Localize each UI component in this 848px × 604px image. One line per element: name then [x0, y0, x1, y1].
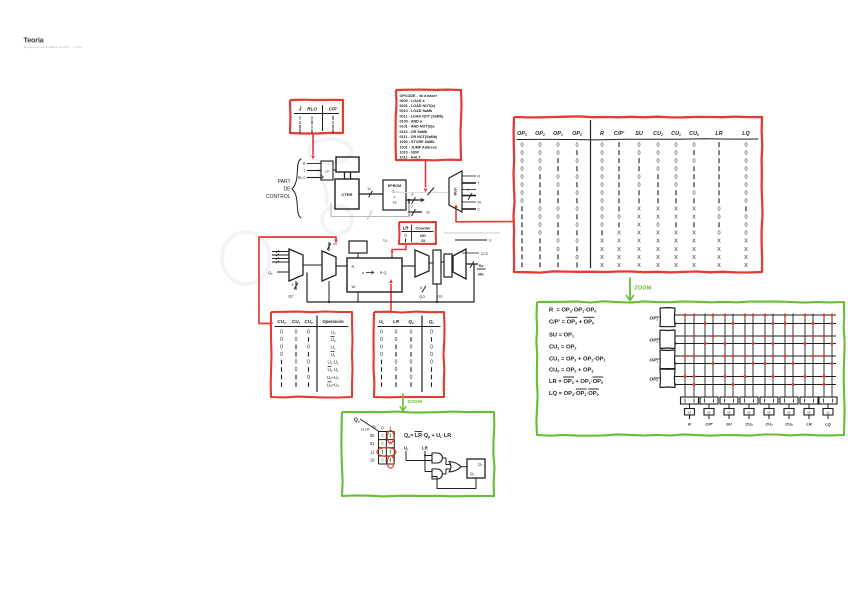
svg-text:Ck: Ck [426, 211, 430, 215]
svg-text:1000 - STORE SaMb: 1000 - STORE SaMb [400, 140, 436, 144]
svg-text:X: X [617, 231, 621, 237]
svg-text:RLO: RLO [298, 176, 306, 180]
svg-text:C/P': C/P' [614, 131, 625, 137]
svg-text:U0​·U1​: U0​·U1​ [327, 360, 339, 366]
svg-text:(U): (U) [438, 295, 443, 299]
svg-text:0: 0 [637, 143, 640, 149]
svg-text:X: X [674, 247, 678, 253]
svg-text:CU1​: CU1​ [765, 422, 773, 428]
svg-text:Counter: Counter [415, 226, 431, 231]
svg-text:0: 0 [410, 330, 413, 336]
svg-text:C/P': C/P' [329, 107, 339, 112]
svg-text:0: 0 [556, 247, 559, 253]
svg-text:0000 - LOAD a: 0000 - LOAD a [400, 99, 426, 103]
svg-text:LR: LR [422, 446, 429, 451]
svg-text:OP3​: OP3​ [649, 316, 658, 322]
svg-text:12: 12 [367, 187, 371, 191]
svg-text:X: X [692, 247, 696, 253]
svg-text:R: R [303, 161, 306, 166]
svg-text:0: 0 [600, 223, 603, 229]
svg-text:0: 0 [280, 345, 283, 351]
svg-text:X: X [717, 263, 721, 269]
svg-text:CU0​ = OP0​ + OP3​: CU0​ = OP0​ + OP3​ [549, 368, 593, 374]
svg-text:0: 0 [430, 360, 433, 366]
svg-text:U0​+U1​: U0​+U1​ [327, 375, 340, 381]
svg-text:0: 0 [381, 426, 384, 431]
svg-text:0: 0 [538, 143, 541, 149]
svg-text:W: W [352, 284, 356, 289]
svg-text:0: 0 [295, 330, 298, 336]
svg-text:X: X [744, 255, 748, 261]
svg-text:X: X [674, 255, 678, 261]
svg-text:CU2​: CU2​ [653, 131, 663, 137]
svg-text:≥1: ≥1 [787, 411, 791, 415]
svg-text:X: X [617, 239, 621, 245]
svg-text:0: 0 [280, 330, 283, 336]
svg-text:0010 - LOAD SaMb: 0010 - LOAD SaMb [400, 109, 434, 113]
svg-text:0: 0 [744, 143, 747, 149]
svg-text:R: R [600, 131, 604, 137]
svg-text:X: X [617, 263, 621, 269]
svg-text:Qn​: Qn​ [354, 418, 360, 424]
svg-text:C/P' = OP3​ + OP0​: C/P' = OP3​ + OP0​ [549, 320, 594, 326]
svg-text:CU1​: CU1​ [671, 131, 681, 137]
svg-text:0: 0 [380, 345, 383, 351]
svg-text:0: 0 [311, 124, 314, 129]
svg-text:0: 0 [575, 175, 578, 181]
svg-text:U0​: U0​ [331, 330, 336, 336]
svg-text:Sx: Sx [479, 263, 485, 268]
svg-text:0: 0 [556, 151, 559, 157]
svg-text:0: 0 [656, 151, 659, 157]
svg-text:16: 16 [393, 201, 397, 205]
svg-text:0: 0 [744, 175, 747, 181]
svg-text:0: 0 [674, 151, 677, 157]
svg-text:X: X [600, 239, 604, 245]
svg-text:Qn​: Qn​ [470, 472, 475, 477]
svg-text:CU2​ = OP2​: CU2​ = OP2​ [549, 345, 576, 351]
svg-text:0: 0 [307, 345, 310, 351]
svg-text:0: 0 [674, 175, 677, 181]
svg-text:0: 0 [307, 360, 310, 366]
svg-text:R = OP3​·OP1​·OP0​: R = OP3​·OP1​·OP0​ [549, 308, 596, 314]
svg-text:X: X [656, 239, 660, 245]
svg-text:U0​·U1​: U0​·U1​ [327, 367, 339, 373]
svg-text:0: 0 [381, 457, 384, 462]
svg-text:EPROM: EPROM [388, 184, 401, 188]
svg-text:0: 0 [410, 375, 413, 381]
svg-text:SU: SU [635, 131, 643, 137]
svg-text:QO: QO [419, 295, 425, 299]
svg-text:0: 0 [430, 352, 433, 358]
svg-text:0: 0 [656, 167, 659, 173]
svg-text:X: X [637, 255, 641, 261]
svg-text:0: 0 [717, 215, 720, 221]
svg-text:QC: QC [288, 295, 294, 299]
svg-text:CCS: CCS [481, 252, 488, 256]
svg-text:CU2​: CU2​ [277, 319, 286, 325]
svg-text:X: X [656, 263, 660, 269]
svg-text:R·Q: R·Q [380, 271, 387, 275]
svg-text:0: 0 [381, 433, 384, 438]
svg-text:0: 0 [744, 215, 747, 221]
svg-text:0: 0 [575, 207, 578, 213]
svg-text:0: 0 [520, 175, 523, 181]
svg-text:0: 0 [600, 199, 603, 205]
svg-text:T: T [303, 168, 306, 173]
svg-text:0: 0 [744, 167, 747, 173]
svg-text:0: 0 [538, 207, 541, 213]
svg-text:0: 0 [295, 360, 298, 366]
svg-text:0: 0 [600, 183, 603, 189]
svg-text:OP0​: OP0​ [649, 377, 658, 383]
svg-text:0011 - LOAD NOT (SaMb): 0011 - LOAD NOT (SaMb) [400, 114, 445, 118]
svg-text:NO: NO [420, 234, 426, 238]
svg-text:0: 0 [538, 215, 541, 221]
svg-text:OPCODE - Va a hacer: OPCODE - Va a hacer [400, 94, 438, 98]
svg-text:0: 0 [538, 159, 541, 165]
svg-text:Qn​= LR·Qp​ + UL​·LR: Qn​= LR·Qp​ + UL​·LR [404, 433, 451, 439]
svg-text:0: 0 [556, 183, 559, 189]
svg-text:0: 0 [575, 159, 578, 165]
svg-text:0: 0 [717, 207, 720, 213]
svg-text:0: 0 [575, 143, 578, 149]
svg-text:0: 0 [280, 352, 283, 358]
svg-text:CU0​: CU0​ [304, 319, 313, 325]
svg-text:U1​: U1​ [331, 352, 336, 358]
svg-text:2: 2 [411, 205, 413, 209]
svg-text:1: 1 [389, 426, 392, 431]
svg-text:0: 0 [520, 199, 523, 205]
svg-text:0001 - LOAD NOT(b): 0001 - LOAD NOT(b) [400, 104, 436, 108]
svg-text:0: 0 [556, 207, 559, 213]
svg-text:X: X [617, 247, 621, 253]
svg-text:0101 - AND NOT(b)a: 0101 - AND NOT(b)a [400, 125, 436, 129]
svg-text:X: X [674, 263, 678, 269]
svg-text:CONTROL: CONTROL [266, 194, 291, 200]
svg-text:R: R [688, 422, 691, 427]
svg-text:LQ = OP3​·OP1​·OP0​: LQ = OP3​·OP1​·OP0​ [549, 391, 599, 397]
svg-text:1001 - JUMP Address: 1001 - JUMP Address [400, 145, 437, 149]
svg-text:0: 0 [600, 191, 603, 197]
svg-text:X: X [656, 231, 660, 237]
svg-text:0: 0 [575, 191, 578, 197]
svg-text:0: 0 [575, 255, 578, 261]
svg-text:0100 - AND a: 0100 - AND a [400, 120, 423, 124]
svg-text:0: 0 [380, 337, 383, 343]
svg-text:0: 0 [395, 360, 398, 366]
svg-text:LR: LR [806, 422, 811, 427]
svg-text:CU1​: CU1​ [292, 319, 301, 325]
svg-text:0: 0 [311, 115, 314, 120]
svg-text:0: 0 [600, 207, 603, 213]
svg-text:0: 0 [692, 159, 695, 165]
svg-text:Qp​: Qp​ [268, 271, 273, 276]
svg-text:0: 0 [744, 199, 747, 205]
svg-text:0: 0 [520, 191, 523, 197]
svg-text:0: 0 [674, 167, 677, 173]
svg-text:0: 0 [600, 143, 603, 149]
svg-text:X: X [744, 263, 748, 269]
svg-text:X: X [692, 231, 696, 237]
svg-text:0: 0 [395, 367, 398, 373]
svg-text:C/P': C/P' [705, 422, 714, 427]
svg-text:ZOOM: ZOOM [635, 286, 652, 292]
svg-text:X: X [744, 239, 748, 245]
svg-text:10: 10 [370, 457, 375, 462]
svg-text:12: 12 [369, 210, 373, 214]
svg-text:a: a [362, 271, 364, 275]
svg-text:0: 0 [637, 175, 640, 181]
svg-text:0: 0 [600, 151, 603, 157]
svg-text:SU: SU [726, 422, 732, 427]
svg-text:0: 0 [617, 215, 620, 221]
svg-text:IN: IN [478, 201, 482, 205]
svg-text:CTER: CTER [342, 192, 353, 197]
svg-text:X: X [637, 247, 641, 253]
svg-text:X: X [744, 247, 748, 253]
svg-text:0: 0 [744, 151, 747, 157]
svg-text:0: 0 [520, 167, 523, 173]
svg-text:0: 0 [380, 330, 383, 336]
svg-text:≥1: ≥1 [807, 411, 811, 415]
svg-text:Mx: Mx [478, 272, 484, 277]
svg-text:0: 0 [538, 223, 541, 229]
svg-text:SI: SI [421, 239, 425, 243]
svg-text:0: 0 [556, 215, 559, 221]
svg-text:≥1: ≥1 [747, 411, 751, 415]
svg-text:DE: DE [284, 187, 292, 193]
svg-text:≥1: ≥1 [727, 411, 731, 415]
svg-text:0: 0 [430, 345, 433, 351]
svg-text:OP2​: OP2​ [535, 131, 545, 137]
svg-text:Qp​: Qp​ [478, 463, 483, 468]
svg-text:0110 - OR SaMb: 0110 - OR SaMb [400, 130, 428, 134]
svg-text:4: 4 [467, 188, 469, 192]
svg-text:0: 0 [692, 143, 695, 149]
svg-text:0: 0 [674, 143, 677, 149]
svg-text:OP3​: OP3​ [517, 131, 527, 137]
svg-text:0: 0 [600, 159, 603, 165]
svg-text:PART: PART [278, 179, 291, 185]
svg-text:0: 0 [637, 183, 640, 189]
svg-text:X: X [692, 207, 696, 213]
svg-text:X: X [674, 215, 678, 221]
svg-text:Teoria: Teoria [24, 35, 45, 44]
svg-text:0: 0 [600, 175, 603, 181]
svg-text:X: X [717, 255, 721, 261]
svg-text:0: 0 [556, 175, 559, 181]
svg-text:x: x [394, 195, 396, 199]
svg-text:00: 00 [370, 433, 375, 438]
svg-text:0: 0 [656, 159, 659, 165]
svg-text:Apuntes de teoria, Diseno de C: Apuntes de teoria, Diseno de CPU [24, 45, 70, 49]
svg-text:X: X [600, 263, 604, 269]
svg-text:CU0​: CU0​ [785, 422, 793, 428]
svg-text:0: 0 [692, 191, 695, 197]
svg-text:R: R [478, 175, 481, 179]
svg-text:OP2​: OP2​ [649, 338, 658, 344]
svg-text:0: 0 [538, 167, 541, 173]
svg-text:CU1​ = OP3​ + OP2​·OP1​: CU1​ = OP3​ + OP2​·OP1​ [549, 357, 606, 363]
svg-text:0: 0 [295, 367, 298, 373]
svg-text:X: X [617, 255, 621, 261]
svg-text:X: X [637, 223, 641, 229]
svg-text:U: U [489, 239, 492, 243]
svg-text:0: 0 [295, 337, 298, 343]
svg-text:X: X [656, 207, 660, 213]
svg-text:0: 0 [307, 375, 310, 381]
svg-text:0: 0 [744, 231, 747, 237]
svg-text:8: 8 [420, 286, 422, 290]
svg-text:U0​: U0​ [331, 337, 336, 343]
svg-text:0: 0 [299, 120, 302, 125]
svg-text:0: 0 [520, 143, 523, 149]
svg-text:0: 0 [637, 151, 640, 157]
svg-text:6: 6 [292, 283, 294, 287]
svg-text:SU = OP1​: SU = OP1​ [549, 333, 574, 339]
svg-text:X: X [692, 215, 696, 221]
svg-text:0: 0 [575, 223, 578, 229]
svg-text:OP1​: OP1​ [553, 131, 563, 137]
svg-text:UL​: UL​ [383, 239, 388, 244]
svg-text:≥1: ≥1 [826, 411, 830, 415]
svg-text:0: 0 [556, 239, 559, 245]
svg-text:X: X [637, 263, 641, 269]
svg-text:0: 0 [395, 337, 398, 343]
svg-text:X: X [674, 239, 678, 245]
svg-text:OP0​: OP0​ [572, 131, 582, 137]
svg-text:0: 0 [381, 441, 384, 446]
svg-text:0: 0 [520, 159, 523, 165]
svg-text:≥1: ≥1 [688, 411, 692, 415]
svg-text:1 vista: 1 vista [73, 45, 82, 49]
svg-text:U1​: U1​ [331, 345, 336, 351]
svg-text:X: X [600, 247, 604, 253]
svg-text:X: X [637, 239, 641, 245]
svg-text:0: 0 [744, 159, 747, 165]
svg-text:X: X [692, 255, 696, 261]
svg-text:U0​+U1​: U0​+U1​ [327, 382, 340, 388]
svg-text:≥1: ≥1 [707, 411, 711, 415]
svg-text:X: X [637, 231, 641, 237]
svg-text:0: 0 [389, 441, 392, 446]
svg-text:RLO: RLO [307, 107, 317, 112]
svg-text:X: X [674, 231, 678, 237]
svg-text:0111 - OR NOT(SaMb): 0111 - OR NOT(SaMb) [400, 135, 438, 139]
svg-text:0: 0 [520, 151, 523, 157]
svg-text:0: 0 [430, 330, 433, 336]
svg-text:LR: LR [403, 226, 409, 231]
svg-text:LQ: LQ [825, 422, 831, 427]
svg-text:X: X [656, 247, 660, 253]
svg-text:1010 - NOP: 1010 - NOP [400, 150, 420, 154]
svg-text:0: 0 [280, 337, 283, 343]
svg-text:X: X [656, 255, 660, 261]
svg-text:MUX: MUX [454, 187, 458, 196]
svg-text:X: X [637, 215, 641, 221]
svg-text:C/P: C/P [325, 170, 330, 174]
svg-text:0: 0 [744, 183, 747, 189]
svg-text:X: X [656, 215, 660, 221]
svg-text:1011 - HALT: 1011 - HALT [400, 156, 422, 160]
svg-text:X: X [717, 239, 721, 245]
svg-text:C: C [478, 208, 481, 212]
svg-text:0: 0 [575, 239, 578, 245]
svg-text:01: 01 [370, 441, 375, 446]
svg-text:T: T [478, 182, 480, 186]
svg-text:J: J [299, 107, 302, 113]
svg-text:CU: CU [333, 242, 337, 246]
svg-text:0: 0 [410, 345, 413, 351]
svg-text:11: 11 [370, 449, 375, 454]
svg-text:ZOOM: ZOOM [408, 399, 422, 405]
svg-text:Qp​: Qp​ [408, 319, 414, 325]
svg-text:4: 4 [411, 193, 413, 197]
svg-text:UL​: UL​ [379, 319, 384, 325]
svg-text:0: 0 [380, 352, 383, 358]
svg-text:0: 0 [395, 330, 398, 336]
svg-text:X: X [692, 263, 696, 269]
svg-text:0: 0 [600, 215, 603, 221]
svg-text:Qp​: Qp​ [372, 424, 377, 430]
svg-text:X: X [637, 207, 641, 213]
svg-text:0: 0 [656, 223, 659, 229]
svg-text:UL​: UL​ [404, 446, 409, 452]
svg-text:X: X [600, 255, 604, 261]
svg-text:0: 0 [717, 231, 720, 237]
svg-text:OP1​: OP1​ [649, 358, 658, 364]
svg-text:LR: LR [715, 131, 722, 137]
svg-text:0: 0 [538, 151, 541, 157]
svg-text:0: 0 [656, 143, 659, 149]
svg-text:0: 0 [674, 159, 677, 165]
svg-text:R: R [352, 264, 355, 269]
svg-text:0: 0 [520, 183, 523, 189]
svg-text:X: X [692, 239, 696, 245]
svg-text:CU0​: CU0​ [689, 131, 699, 137]
svg-text:UL​LR: UL​LR [361, 428, 370, 433]
svg-text:0: 0 [404, 233, 407, 238]
svg-text:Operación: Operación [322, 319, 344, 324]
svg-text:LR = OP3​ + OP1​·OP0​: LR = OP3​ + OP1​·OP0​ [549, 379, 603, 385]
svg-text:0: 0 [332, 120, 335, 125]
svg-text:0: 0 [556, 143, 559, 149]
svg-text:212​: 212​ [392, 190, 397, 195]
svg-text:CU2​: CU2​ [745, 422, 753, 428]
svg-text:LR: LR [393, 319, 400, 324]
svg-text:0: 0 [744, 191, 747, 197]
svg-text:0: 0 [744, 223, 747, 229]
svg-text:X: X [717, 247, 721, 253]
svg-text:≥1: ≥1 [767, 411, 771, 415]
svg-text:Qn​: Qn​ [429, 319, 435, 325]
svg-text:0: 0 [674, 183, 677, 189]
svg-text:0: 0 [307, 330, 310, 336]
svg-text:0: 0 [538, 231, 541, 237]
svg-text:LQ: LQ [742, 131, 750, 137]
svg-text:X: X [674, 207, 678, 213]
svg-text:0: 0 [410, 360, 413, 366]
svg-text:0: 0 [600, 167, 603, 173]
